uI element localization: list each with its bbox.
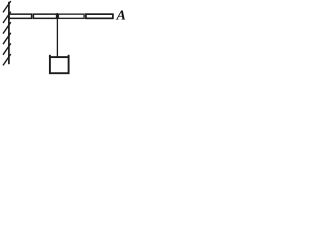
beam segment 3 [58, 14, 84, 18]
beam segment 4 [86, 14, 113, 18]
svg-text:A: A [116, 9, 126, 24]
wall [8, 2, 10, 64]
beam segment 2 [33, 14, 56, 18]
box corner stubs [49, 55, 51, 58]
string [56, 13, 58, 57]
wall hatching [3, 1, 11, 65]
beam segment 1 [9, 14, 32, 18]
weight box [50, 57, 69, 73]
